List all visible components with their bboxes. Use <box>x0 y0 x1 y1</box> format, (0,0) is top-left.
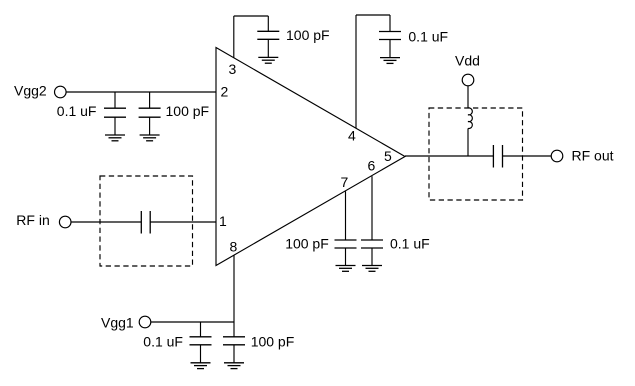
wire pin 5 output to C10 <box>405 155 493 157</box>
ground (C8) <box>191 363 211 369</box>
wire C5 to pin 1 <box>150 221 216 223</box>
svg-text:RF out: RF out <box>572 148 614 164</box>
svg-text:100 pF: 100 pF <box>251 334 295 350</box>
wire Vdd to L1 <box>467 86 469 109</box>
wire pin 4 horizontal top <box>356 14 390 16</box>
svg-text:Vgg2: Vgg2 <box>14 82 47 98</box>
terminal Vgg1 <box>139 316 151 328</box>
wire L1 to output node <box>467 128 469 156</box>
svg-text:1: 1 <box>219 213 227 229</box>
wire Vgg1 horizontal <box>151 321 235 323</box>
terminal RF in <box>59 216 71 228</box>
capacitor C4 0.1 uF (pin 4 bypass) <box>379 15 401 58</box>
terminal RF out <box>551 150 563 162</box>
ground (C1) <box>105 135 125 141</box>
ground (C2) <box>140 135 160 141</box>
wire pin 3 horizontal top <box>234 15 268 17</box>
svg-text:8: 8 <box>230 239 238 255</box>
svg-text:2: 2 <box>221 83 229 99</box>
svg-text:0.1 uF: 0.1 uF <box>390 236 430 252</box>
svg-text:4: 4 <box>348 127 356 143</box>
svg-text:0.1 uF: 0.1 uF <box>143 334 183 350</box>
svg-text:Vgg1: Vgg1 <box>101 314 134 330</box>
ground (C4) <box>380 58 400 64</box>
svg-text:3: 3 <box>229 61 237 77</box>
input matching network dashed box <box>100 176 193 266</box>
op-amp U1 amplifier triangle <box>216 48 405 266</box>
ground (C9) <box>224 363 244 369</box>
svg-text:6: 6 <box>368 157 376 173</box>
capacitor C7 0.1 uF (pin 6 bypass) <box>361 240 383 266</box>
ground (C7) <box>362 266 382 272</box>
wire C10 to RF out <box>503 155 552 157</box>
svg-text:100 pF: 100 pF <box>286 27 330 43</box>
wire RF in to C5 <box>71 221 142 223</box>
svg-text:5: 5 <box>384 148 392 164</box>
wire pin 6 vertical <box>371 176 373 240</box>
wire pin 8 vertical <box>233 255 235 337</box>
capacitor C2 100 pF (Vgg2 bypass) <box>139 92 161 135</box>
capacitor C5 series DC block (input) <box>141 211 150 234</box>
capacitor C10 series DC block (output) <box>493 145 502 168</box>
output matching network dashed box <box>429 108 523 200</box>
svg-text:RF in: RF in <box>16 212 49 228</box>
svg-text:7: 7 <box>341 174 349 190</box>
wire pin 7 vertical <box>345 191 347 240</box>
capacitor C9 100 pF (Vgg1 bypass) <box>223 337 245 363</box>
capacitor C8 0.1 uF (Vgg1 bypass) <box>190 322 212 363</box>
svg-text:100 pF: 100 pF <box>285 236 329 252</box>
inductor L1 (RF choke) <box>468 108 472 129</box>
capacitor C1 0.1 uF (Vgg2 bypass) <box>104 92 126 135</box>
svg-text:100 pF: 100 pF <box>166 103 210 119</box>
wire pin 4 vertical <box>355 15 357 128</box>
wire pin 3 vertical <box>233 16 235 58</box>
svg-text:Vdd: Vdd <box>455 53 480 69</box>
svg-text:0.1 uF: 0.1 uF <box>57 103 97 119</box>
terminal Vdd <box>462 74 474 86</box>
svg-text:0.1 uF: 0.1 uF <box>408 29 448 45</box>
terminal Vgg2 <box>55 86 67 98</box>
capacitor C3 100 pF (pin 3 bypass) <box>257 16 279 57</box>
wire Vgg2 to pin 2 <box>66 91 216 93</box>
capacitor C6 100 pF (pin 7 bypass) <box>335 240 357 266</box>
ground (C6) <box>336 266 356 272</box>
ground (C3) <box>258 57 278 63</box>
